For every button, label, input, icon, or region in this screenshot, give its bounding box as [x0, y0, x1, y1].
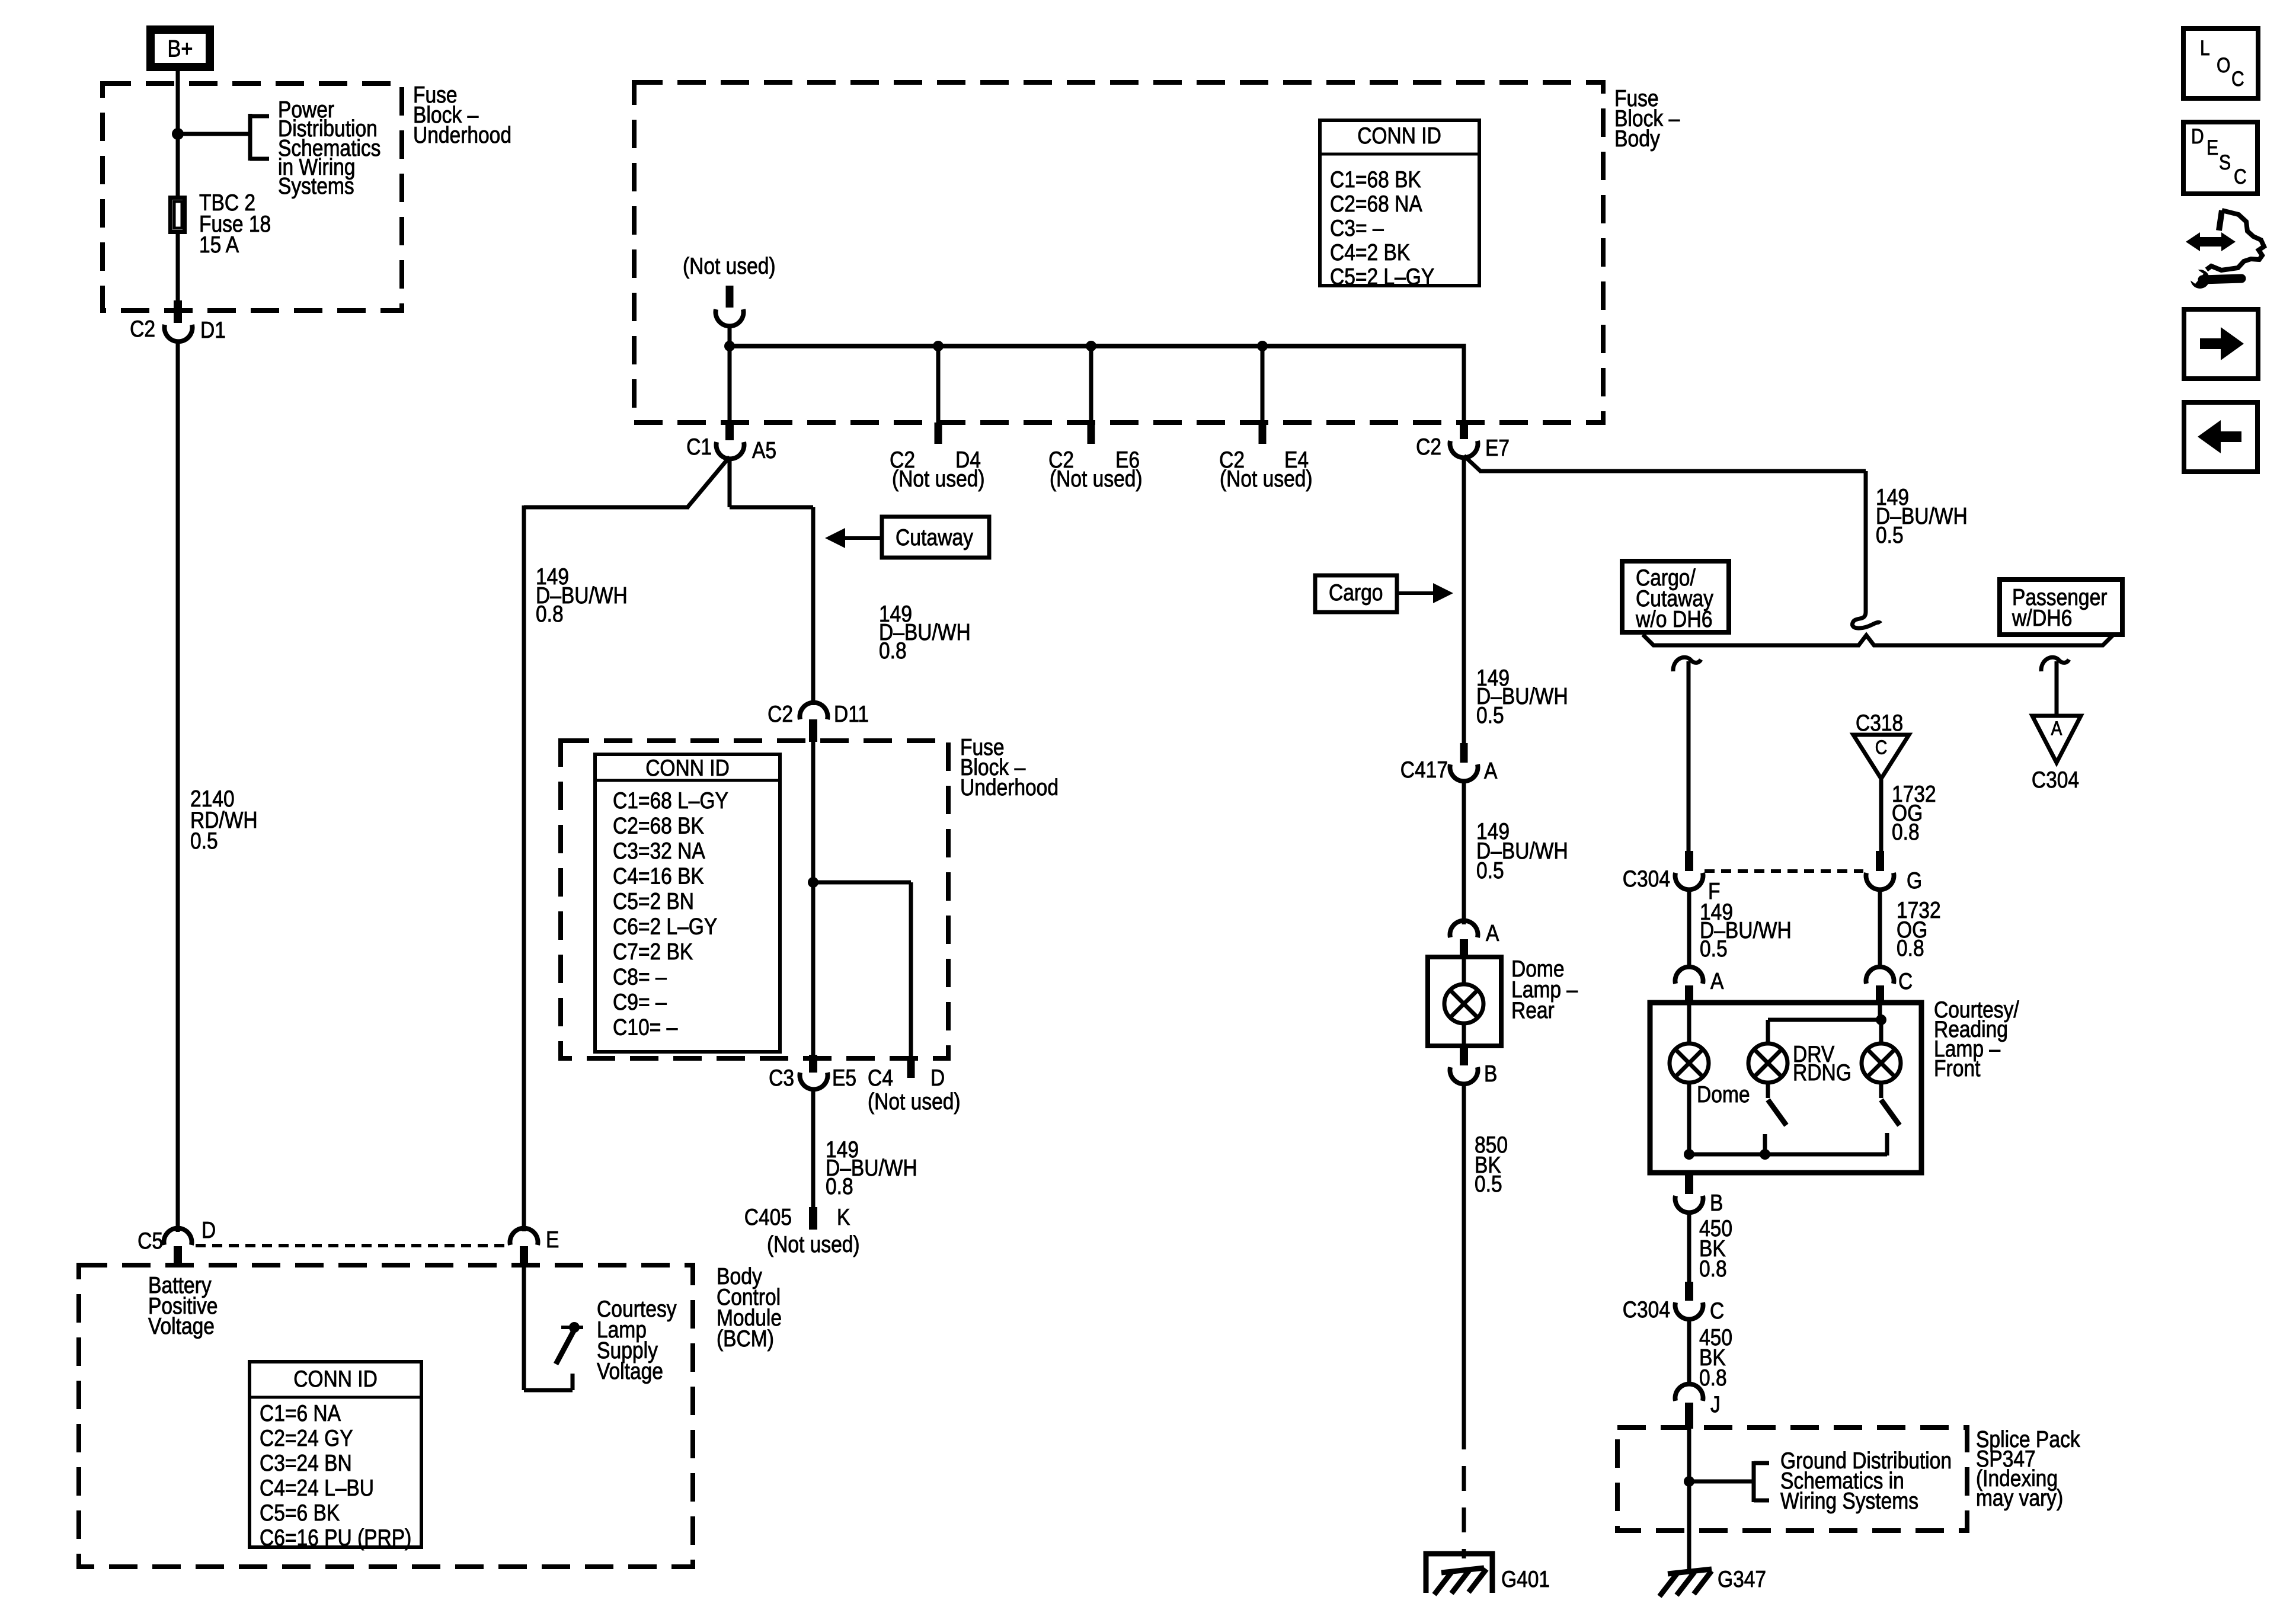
svg-text:Body: Body	[1614, 126, 1660, 152]
svg-text:A: A	[1484, 758, 1497, 784]
svg-text:C9= –: C9= –	[613, 990, 667, 1015]
junction	[1684, 1149, 1694, 1160]
svg-text:(Not used): (Not used)	[868, 1089, 961, 1115]
svg-text:C3: C3	[769, 1065, 794, 1091]
connector C1 A5	[728, 346, 732, 423]
svg-text:(Not used): (Not used)	[683, 254, 776, 279]
connector J	[1675, 1384, 1703, 1401]
svg-text:0.5: 0.5	[1476, 858, 1504, 884]
DESC icon box	[2183, 122, 2257, 194]
connector C304 C	[1685, 1282, 1693, 1301]
svg-text:S: S	[2219, 151, 2231, 174]
svg-text:Cargo: Cargo	[1329, 580, 1383, 606]
svg-text:C4=2 BK: C4=2 BK	[1330, 240, 1410, 265]
connector B	[1685, 1174, 1693, 1194]
terminal C405 K not used	[809, 1207, 817, 1230]
svg-text:Systems: Systems	[278, 174, 354, 199]
junction	[724, 341, 735, 351]
wire E7 down to C417	[1462, 456, 1466, 744]
svg-text:CONN ID: CONN ID	[1357, 123, 1441, 149]
svg-text:C1=68 BK: C1=68 BK	[1330, 167, 1421, 193]
svg-text:(Not used): (Not used)	[1220, 466, 1313, 492]
drv rdng lamp	[1748, 1044, 1787, 1083]
svg-text:A: A	[1486, 921, 1499, 946]
svg-text:C10= –: C10= –	[613, 1014, 678, 1040]
svg-text:B: B	[1710, 1190, 1723, 1216]
svg-text:0.5: 0.5	[190, 828, 218, 854]
fuse block body dashed box	[634, 82, 1603, 422]
connector C3 E5	[809, 1055, 817, 1073]
internal ground bus	[1689, 1153, 1887, 1157]
svg-text:0.8: 0.8	[1897, 936, 1924, 961]
svg-text:G347: G347	[1718, 1567, 1766, 1592]
power distribution bracket	[248, 114, 252, 161]
svg-text:C6=2 L–GY: C6=2 L–GY	[613, 914, 717, 939]
cargo tag	[1315, 575, 1397, 612]
svg-text:C6=16 PU (PRP): C6=16 PU (PRP)	[260, 1525, 411, 1551]
B+ battery feed symbol	[146, 25, 214, 71]
wire F to A	[1687, 888, 1691, 968]
CONN ID table BCM	[250, 1362, 421, 1547]
fuse block underhood dashed box	[103, 84, 402, 311]
svg-text:0.8: 0.8	[536, 601, 564, 627]
previous page arrow box	[2184, 402, 2257, 472]
junction	[1086, 341, 1096, 351]
connector C lamp front	[1866, 967, 1894, 984]
svg-text:E: E	[546, 1227, 559, 1253]
svg-text:B+: B+	[168, 36, 193, 62]
svg-text:J: J	[1710, 1392, 1721, 1417]
reading lamp feed wire	[1878, 1003, 1882, 1021]
svg-text:K: K	[837, 1205, 850, 1230]
svg-text:G: G	[1907, 868, 1922, 894]
svg-text:C: C	[2231, 68, 2244, 91]
svg-text:may vary): may vary)	[1976, 1486, 2063, 1511]
harness repair icon	[2195, 237, 2226, 247]
next page arrow box	[2184, 309, 2258, 379]
splice bracket	[1689, 1480, 1754, 1484]
svg-text:C: C	[2234, 165, 2247, 188]
junction	[933, 341, 944, 351]
svg-text:(BCM): (BCM)	[717, 1326, 774, 1352]
svg-text:C5=2 L–GY: C5=2 L–GY	[1330, 264, 1434, 290]
courtesy reading lamp front box	[1650, 1003, 1921, 1173]
svg-text:Front: Front	[1934, 1056, 1981, 1081]
connector B dome rear	[1460, 1046, 1468, 1065]
svg-text:A5: A5	[752, 438, 776, 463]
svg-text:C4=16 BK: C4=16 BK	[613, 863, 704, 889]
break squiggle	[1852, 603, 1881, 628]
fuse TBC 2 Fuse 18 15 A	[171, 198, 185, 232]
connector C417 A	[1460, 743, 1468, 763]
svg-text:Wiring Systems: Wiring Systems	[1780, 1489, 1918, 1514]
svg-text:0.5: 0.5	[1476, 703, 1504, 728]
svg-text:D1: D1	[200, 318, 226, 343]
svg-text:C2: C2	[1416, 434, 1441, 460]
svg-text:Underhood: Underhood	[413, 123, 511, 148]
svg-text:C417: C417	[1400, 757, 1448, 783]
svg-text:0.8: 0.8	[879, 638, 907, 664]
svg-text:0.8: 0.8	[826, 1174, 853, 1199]
svg-text:E5: E5	[832, 1065, 856, 1091]
svg-text:C8= –: C8= –	[613, 964, 667, 990]
right option hook	[2041, 657, 2069, 671]
svg-text:C4=24 L–BU: C4=24 L–BU	[260, 1475, 374, 1501]
branch to C4 D stub	[813, 881, 911, 885]
option box Passenger w/DH6	[2000, 580, 2122, 635]
svg-text:0.5: 0.5	[1876, 523, 1904, 548]
junction	[1760, 1149, 1770, 1160]
svg-text:C4: C4	[868, 1065, 893, 1091]
svg-text:Underhood: Underhood	[960, 775, 1059, 801]
LOC icon box	[2183, 28, 2258, 98]
connector C2 E7	[1462, 344, 1466, 423]
wire through splice	[1687, 1429, 1691, 1571]
svg-text:0.8: 0.8	[1699, 1365, 1727, 1391]
connector C304 F	[1685, 851, 1693, 871]
svg-text:C3=32 NA: C3=32 NA	[613, 838, 705, 864]
svg-text:C: C	[1898, 969, 1913, 994]
svg-text:C: C	[1875, 737, 1888, 758]
body control module dashed box	[79, 1265, 693, 1567]
drv rdng switch	[1766, 1083, 1770, 1098]
svg-text:C1=68 L–GY: C1=68 L–GY	[613, 788, 728, 814]
CONN ID table fuse block underhood	[595, 754, 780, 1052]
svg-text:CONN ID: CONN ID	[645, 756, 730, 781]
svg-text:L: L	[2200, 37, 2210, 60]
svg-text:C5: C5	[137, 1228, 163, 1254]
front lamp	[1879, 1021, 1884, 1044]
wire from A5 right branch to D11	[728, 457, 732, 507]
wire D11 to E5	[811, 741, 816, 1055]
svg-text:0.8: 0.8	[1699, 1256, 1727, 1282]
connector C2 D11	[800, 703, 828, 719]
wire fuse to connector C2 D1	[176, 234, 180, 302]
connector A dome rear	[1450, 921, 1478, 937]
dome rear lamp	[1444, 984, 1483, 1023]
junction	[1257, 341, 1268, 351]
wire E5 to C405	[811, 1089, 816, 1209]
svg-text:Voltage: Voltage	[148, 1314, 215, 1339]
ground G347	[1668, 1569, 1712, 1574]
left option hook	[1673, 657, 1701, 671]
triangle connector A to C304	[2032, 716, 2081, 763]
dome lamp rear box	[1428, 957, 1501, 1046]
svg-text:E: E	[2207, 136, 2218, 159]
svg-text:D: D	[930, 1065, 945, 1091]
connector G	[1876, 851, 1884, 871]
svg-text:15 A: 15 A	[199, 232, 239, 258]
svg-text:A: A	[2051, 718, 2062, 740]
svg-text:C3=24 BN: C3=24 BN	[260, 1451, 352, 1476]
svg-text:G401: G401	[1501, 1567, 1550, 1592]
dashed connector line F-G	[1705, 869, 1863, 873]
svg-text:C1=6 NA: C1=6 NA	[260, 1401, 341, 1426]
connector A lamp front	[1675, 967, 1703, 984]
svg-text:C2: C2	[130, 316, 155, 342]
svg-text:C2=24 GY: C2=24 GY	[260, 1426, 353, 1451]
svg-text:w/o DH6: w/o DH6	[1635, 607, 1712, 632]
dashed connector line D-E	[196, 1244, 509, 1247]
junction	[1876, 1014, 1886, 1025]
svg-text:C: C	[1710, 1298, 1724, 1324]
svg-text:O: O	[2217, 54, 2230, 77]
svg-text:Dome: Dome	[1697, 1082, 1750, 1108]
svg-text:(Not used): (Not used)	[1050, 466, 1143, 492]
svg-text:C2=68 NA: C2=68 NA	[1330, 191, 1422, 217]
svg-text:0.5: 0.5	[1475, 1172, 1502, 1197]
wire 2140 RD/WH 0.5	[176, 340, 180, 1232]
dome lamp wire	[1687, 1004, 1691, 1044]
svg-text:C3= –: C3= –	[1330, 216, 1384, 241]
svg-text:C2: C2	[768, 702, 793, 727]
wire E7 branch right	[1464, 456, 1481, 472]
svg-text:C5=6 BK: C5=6 BK	[260, 1500, 340, 1526]
stub C2 E6 not used	[1089, 346, 1093, 422]
junction	[808, 877, 818, 888]
triangle connector C from C318	[1853, 735, 1909, 779]
wrench	[2191, 270, 2209, 289]
option split bracket	[1643, 635, 2113, 645]
svg-text:C318: C318	[1856, 710, 1903, 736]
wire from A5 left branch to BCM	[687, 457, 730, 507]
splice pack SP347 dashed box	[1617, 1427, 1967, 1531]
wire 850 BK to ground	[1462, 1083, 1466, 1425]
fuse block underhood (lower) dashed box	[561, 741, 948, 1058]
connector C5 D	[164, 1228, 192, 1245]
svg-text:Rear: Rear	[1511, 998, 1555, 1023]
option box Cargo/Cutaway w/o DH6	[1622, 561, 1729, 632]
svg-text:D: D	[2191, 125, 2204, 148]
svg-text:C304: C304	[2032, 767, 2079, 793]
svg-text:0.5: 0.5	[1700, 936, 1728, 962]
stub C2 E4 not used	[1261, 346, 1265, 422]
svg-text:C405: C405	[744, 1205, 792, 1230]
wire to power distribution bracket	[178, 132, 250, 136]
wire G to C	[1878, 888, 1882, 968]
svg-text:(Not used): (Not used)	[767, 1232, 860, 1257]
svg-text:0.8: 0.8	[1892, 820, 1920, 845]
svg-text:Voltage: Voltage	[597, 1359, 663, 1384]
svg-text:C304: C304	[1623, 1297, 1670, 1323]
connector C2 D1	[174, 300, 182, 323]
courtesy lamp supply switch	[522, 1266, 526, 1390]
wire B+ to fuse	[176, 69, 180, 197]
connector E	[510, 1228, 538, 1245]
ground G401	[1426, 1554, 1492, 1593]
svg-text:Cutaway: Cutaway	[896, 525, 973, 550]
svg-text:E7: E7	[1485, 436, 1510, 461]
svg-text:C5=2 BN: C5=2 BN	[613, 889, 694, 914]
junction node	[172, 128, 184, 140]
svg-text:B: B	[1484, 1061, 1497, 1087]
svg-text:C304: C304	[1623, 866, 1670, 892]
CONN ID table fuse block body	[1320, 120, 1479, 286]
dome lamp	[1670, 1044, 1709, 1083]
front lamp switch	[1879, 1083, 1884, 1098]
stub C2 D4 not used	[936, 346, 941, 422]
svg-text:C2=68 BK: C2=68 BK	[613, 813, 704, 838]
bus wire	[730, 344, 1464, 348]
svg-text:CONN ID: CONN ID	[293, 1366, 378, 1392]
cutaway tag	[882, 517, 989, 558]
svg-text:RDNG: RDNG	[1793, 1060, 1851, 1086]
svg-text:w/DH6: w/DH6	[2012, 606, 2072, 631]
junction	[1684, 1476, 1694, 1487]
svg-text:C7=2 BK: C7=2 BK	[613, 939, 693, 965]
svg-text:D: D	[202, 1218, 216, 1243]
svg-text:A: A	[1710, 969, 1723, 994]
svg-text:D11: D11	[834, 702, 869, 727]
svg-text:(Not used): (Not used)	[892, 466, 985, 492]
svg-text:C1: C1	[686, 434, 712, 460]
